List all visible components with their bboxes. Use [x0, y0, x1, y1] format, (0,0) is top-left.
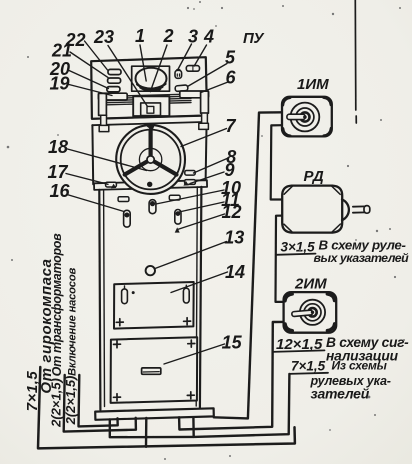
wheel hub center: [147, 156, 154, 163]
screw marks panel 14: [116, 319, 123, 326]
leader 21: [70, 52, 108, 78]
svg-text:12: 12: [221, 202, 241, 222]
shelf left triangle: [111, 184, 116, 189]
svg-text:12×1,5: 12×1,5: [276, 336, 323, 353]
plinth stub wire: [110, 419, 194, 437]
2IM corner wedges: [285, 294, 335, 331]
small circle item 13: [146, 266, 155, 275]
svg-text:2(2×1,5): 2(2×1,5): [63, 376, 78, 426]
wheel-section sides: [91, 125, 94, 184]
svg-text:3×1,5: 3×1,5: [281, 240, 316, 255]
plinth stub to cable A: [145, 418, 148, 447]
svg-text:18: 18: [48, 137, 68, 157]
steering wheel rim: [116, 125, 185, 194]
svg-text:9: 9: [224, 160, 234, 180]
wire cable B (transformers): [64, 375, 136, 432]
svg-text:От трансформаторов: От трансформаторов: [50, 233, 64, 376]
leader 23: [108, 46, 148, 107]
leader 16: [67, 195, 124, 212]
small rect left (row): [118, 197, 129, 202]
2IM dial circles: [300, 300, 325, 325]
svg-text:14: 14: [225, 262, 245, 282]
svg-text:5: 5: [225, 48, 236, 68]
right capsule lamp (item 10): [175, 210, 181, 225]
leader 17: [66, 174, 108, 185]
2IM lever: [292, 310, 313, 317]
leader 12: [178, 214, 225, 230]
svg-text:19: 19: [49, 74, 69, 94]
axle knob on shelf: [147, 182, 152, 187]
shelf right rect (item 9): [185, 180, 196, 185]
svg-text:2: 2: [162, 26, 173, 46]
svg-text:13: 13: [224, 228, 244, 248]
RD right bulge: [342, 199, 349, 220]
svg-text:4: 4: [203, 27, 214, 47]
svg-text:2(2×1,5): 2(2×1,5): [49, 378, 64, 428]
leader 8: [194, 159, 228, 174]
rotation arrow on rim: [146, 124, 155, 131]
left capsule lamp (item 16): [124, 210, 131, 227]
svg-text:РД: РД: [304, 168, 324, 185]
svg-text:7×1,5: 7×1,5: [291, 359, 326, 374]
actuator 2IM body: [284, 292, 337, 333]
page edge line top right: [355, 0, 356, 123]
svg-text:вых указателей: вых указателей: [314, 251, 410, 265]
indicator lamp rect mid-left: [108, 78, 121, 83]
left mounting bracket: [98, 93, 127, 100]
panel 15: [111, 337, 198, 403]
wheel spokes: [149, 130, 153, 155]
compass dome rim arc: [137, 84, 166, 90]
actuator 1IM body: [282, 97, 332, 137]
head box of control pedestal: [91, 57, 207, 119]
svg-text:ПУ: ПУ: [243, 30, 265, 47]
lamp item 4: [186, 66, 199, 72]
plinth base: [95, 408, 214, 420]
label line 12x1,5: [272, 350, 324, 352]
compass bezel square: [132, 66, 170, 91]
svg-text:23: 23: [93, 27, 114, 47]
handle on panel 15: [142, 368, 161, 374]
screw marks panel 15: [114, 341, 121, 348]
svg-text:17: 17: [47, 162, 68, 182]
RD chamfer marks: [284, 186, 340, 233]
leader 22: [85, 41, 108, 70]
leader 5: [188, 64, 228, 87]
leader 6: [201, 82, 228, 93]
indicator lamp rect low-left: [107, 87, 120, 92]
lamp holder left in panel 14: [122, 289, 128, 304]
1IM corner arcs: [283, 98, 331, 136]
svg-text:2ИМ: 2ИМ: [294, 276, 327, 293]
svg-text:6: 6: [225, 68, 236, 88]
svg-text:21: 21: [51, 41, 72, 61]
wheel hub plate: [139, 148, 161, 170]
leader 4: [194, 45, 206, 66]
svg-text:Из схемы: Из схемы: [332, 359, 388, 373]
svg-text:1: 1: [135, 26, 145, 46]
leader 11: [179, 202, 224, 212]
leader 2: [150, 45, 167, 92]
wire W4: 2IM lower pin to plinth, cable 12x1.5: [179, 322, 284, 430]
panel 14: [114, 282, 194, 329]
shelf left rect (item 17): [106, 182, 117, 187]
leader 1: [140, 45, 146, 81]
leader 9: [190, 172, 224, 184]
indicator lamp rect top-left: [108, 69, 121, 74]
svg-text:зателей: зателей: [311, 386, 370, 402]
lamp item 5: [175, 85, 188, 92]
wire W2: 1IM lower pin to RD upper pin: [271, 125, 283, 199]
side rect right (item 8): [185, 171, 195, 176]
leader 13: [155, 242, 227, 269]
svg-text:7: 7: [225, 116, 236, 136]
lower body outline: [99, 190, 100, 410]
label line 7x1,5: [289, 373, 328, 374]
label line 3x1,5: [276, 254, 316, 255]
shelf bar below wheel: [94, 180, 207, 190]
wire cable C (pumps): [79, 375, 118, 426]
center control box: [133, 96, 169, 116]
scan specks: [332, 13, 334, 15]
button item 3: [175, 70, 182, 78]
right mounting bracket: [180, 91, 209, 98]
wire W3: RD lower pin to 2IM upper pin, cable 3x1.5: [276, 216, 284, 302]
lamp holder right in panel 14: [183, 288, 189, 303]
hatched shelf band: [107, 94, 191, 105]
leader 10: [156, 190, 224, 204]
leader 14: [171, 272, 228, 293]
leader 19: [67, 84, 112, 96]
svg-text:16: 16: [49, 181, 70, 201]
leader 18: [68, 149, 147, 171]
shelf right triangle: [183, 181, 188, 186]
1IM dial circles: [291, 103, 320, 132]
svg-text:3: 3: [188, 27, 198, 47]
wire W1: 1IM upper pin to plinth: [214, 112, 282, 418]
triangle under right capsule (item 12): [175, 227, 180, 232]
compass dome: [136, 68, 167, 90]
svg-text:15: 15: [222, 333, 243, 353]
center capsule lamp (item 11): [149, 200, 156, 214]
steering sensor RD body: [282, 186, 342, 233]
wire W5: cable 7x1.5 from label to plinth: [193, 374, 289, 437]
dome tick mark: [157, 89, 161, 92]
RD shaft: [353, 206, 365, 212]
1IM lever: [287, 114, 305, 119]
leader 7: [181, 129, 227, 147]
svg-text:1ИМ: 1ИМ: [297, 76, 329, 93]
wire cable A bottom run (gyrocompass): [38, 367, 295, 448]
leader 20: [68, 70, 109, 89]
small rect right (row): [169, 195, 180, 200]
leader 3: [178, 44, 192, 70]
svg-text:Включение насосов: Включение насосов: [67, 268, 79, 377]
leader 15: [164, 344, 225, 364]
shoulder lines: [92, 116, 207, 119]
